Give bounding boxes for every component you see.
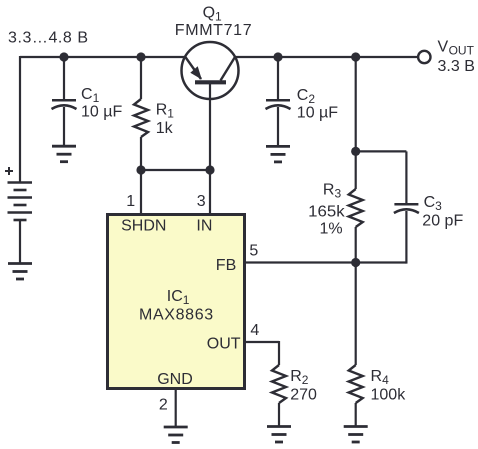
svg-text:3: 3 <box>197 193 206 210</box>
svg-text:270: 270 <box>290 387 317 404</box>
wire top rail right segment <box>236 56 418 58</box>
wire C3 branch down <box>405 151 407 203</box>
IC1 MAX8863 body <box>108 215 245 389</box>
svg-text:R3: R3 <box>323 182 342 201</box>
ground C2 <box>266 146 290 162</box>
resistor R3 <box>349 189 363 227</box>
wire pin 4 corner down to R2 <box>278 341 280 365</box>
wire node to pin 1 <box>140 170 142 214</box>
node junction R3 C3 top <box>351 147 360 156</box>
svg-text:C2: C2 <box>297 87 316 106</box>
wire FB node down to R4 <box>355 263 357 366</box>
svg-text:2: 2 <box>159 397 168 414</box>
svg-text:3.3 В: 3.3 В <box>438 58 475 75</box>
svg-text:GND: GND <box>157 371 193 388</box>
svg-text:10 µF: 10 µF <box>81 104 122 121</box>
svg-text:FMMT717: FMMT717 <box>175 22 252 39</box>
svg-text:FB: FB <box>216 257 236 274</box>
svg-text:1%: 1% <box>320 221 343 238</box>
wire rail to C2 <box>277 57 279 100</box>
wire C3 to FB row <box>405 211 407 264</box>
wire battery to ground <box>19 220 21 264</box>
wire C3 branch top horizontal <box>356 150 407 152</box>
svg-text:10 µF: 10 µF <box>297 105 338 122</box>
svg-text:R2: R2 <box>290 368 309 387</box>
ground R2 <box>267 427 291 443</box>
wire node to pin 3 <box>209 170 211 214</box>
svg-text:OUT: OUT <box>449 44 475 58</box>
svg-text:OUT: OUT <box>207 335 241 352</box>
node junction FB <box>351 258 360 267</box>
ground battery <box>8 264 32 280</box>
wire R4 to ground <box>355 403 357 427</box>
resistor R2 <box>272 365 286 403</box>
svg-text:20 pF: 20 pF <box>422 212 463 229</box>
ground C1 <box>52 146 76 162</box>
svg-text:V: V <box>438 39 449 56</box>
resistor R4 <box>349 365 363 403</box>
node junction C2 top <box>273 52 282 61</box>
wire rail to R1 <box>140 57 142 99</box>
svg-text:4: 4 <box>250 322 259 339</box>
wire R2 to ground <box>278 403 280 427</box>
label battery plus <box>5 167 13 175</box>
svg-text:IN: IN <box>196 218 212 235</box>
svg-text:C3: C3 <box>424 194 443 213</box>
svg-text:1k: 1k <box>156 120 174 137</box>
capacitor C3 <box>394 204 419 213</box>
node junction base row left <box>136 165 145 174</box>
node junction R1 top <box>136 52 145 61</box>
svg-text:C1: C1 <box>81 86 100 105</box>
svg-text:R4: R4 <box>371 368 390 387</box>
capacitor C2 <box>266 100 291 109</box>
svg-text:Q1: Q1 <box>203 5 222 24</box>
svg-text:R1: R1 <box>156 102 175 121</box>
node junction C1 top <box>59 52 68 61</box>
node junction output branch top <box>351 52 360 61</box>
node junction base row right <box>205 165 214 174</box>
ground R4 <box>344 427 368 443</box>
wire top rail left segment <box>20 56 185 58</box>
ground IC pin 2 <box>164 427 188 443</box>
svg-text:165k: 165k <box>308 203 346 220</box>
terminal VOUT <box>418 51 430 63</box>
transistor Q1 <box>182 42 239 171</box>
wire node row horizontal <box>141 169 210 171</box>
svg-text:MAX8863: MAX8863 <box>139 307 214 324</box>
wire rail to C1 <box>63 57 65 100</box>
wire R1 to node <box>140 137 142 171</box>
svg-text:1: 1 <box>126 193 135 210</box>
wire left input drop to battery <box>19 56 21 182</box>
wire C2 to ground <box>277 107 279 146</box>
wire pin 4 OUT horizontal <box>245 341 280 343</box>
svg-text:SHDN: SHDN <box>121 218 166 235</box>
wire pin 2 GND down <box>175 390 177 427</box>
svg-text:100k: 100k <box>371 387 407 404</box>
svg-text:5: 5 <box>249 243 258 260</box>
wire C1 to ground <box>63 107 65 146</box>
svg-text:3.3…4.8 В: 3.3…4.8 В <box>8 29 89 46</box>
wire R3 to FB node <box>355 227 357 263</box>
wire pin 5 FB horizontal <box>245 261 407 263</box>
wire rail down to R3 node <box>355 57 357 151</box>
capacitor C1 <box>52 100 77 109</box>
battery B1 <box>8 183 33 221</box>
resistor R1 <box>134 99 148 137</box>
wire R3 node to resistor <box>355 151 357 189</box>
